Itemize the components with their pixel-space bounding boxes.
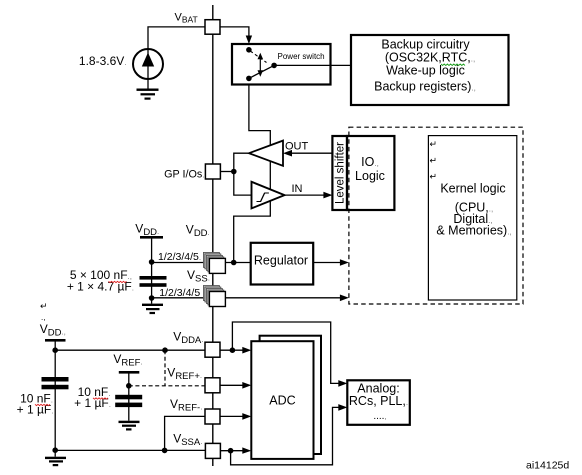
ground below VREF cap — [119, 421, 140, 431]
pin GP I/Os — [205, 164, 220, 179]
svg-text:Logic: Logic — [355, 169, 385, 183]
wire level-shifter to OUT buffer — [291, 152, 332, 154]
ground below 4.7uF cap — [142, 298, 163, 314]
ground below left cap — [45, 450, 66, 466]
arrowhead IN — [323, 192, 332, 199]
kernel logic box — [428, 136, 516, 300]
wire VDDA pin to ADC — [220, 349, 244, 351]
ground below source — [137, 89, 159, 100]
arrowhead VREF+-ADC — [242, 382, 251, 389]
dashed kernel container box — [349, 127, 523, 304]
svg-text:Power switch: Power switch — [278, 52, 325, 61]
node VDD-regulator junction — [231, 260, 237, 266]
pin VREF+ — [205, 378, 220, 393]
pin stack VDD 1/2/3/4/5 — [203, 252, 225, 273]
arrowhead VSSA-analog — [338, 404, 347, 411]
ADC back box — [260, 336, 321, 454]
arrowhead OUT — [283, 150, 292, 157]
level shifter box — [332, 136, 347, 210]
pin stack VSS 1/2/3/4/5 — [203, 286, 225, 307]
node VSS cap bottom — [149, 295, 155, 301]
red squiggle nF left — [35, 404, 50, 405]
wire VREF- to VSSA line — [165, 416, 205, 450]
pin VBAT — [205, 20, 220, 35]
wire VDD node to VDD pins — [152, 262, 210, 264]
wire regulator to kernel — [313, 262, 341, 264]
node VDD cap top — [149, 259, 155, 265]
wire source to VBAT — [148, 27, 205, 50]
arrowhead into power switch — [246, 36, 252, 45]
svg-text:1.8-3.6V.: 1.8-3.6V. — [79, 54, 127, 68]
wire VBAT to power switch — [220, 27, 249, 37]
svg-text:RCs, PLL,.: RCs, PLL,. — [349, 394, 408, 408]
wire switch to backup box — [274, 64, 351, 66]
wire switch bottom to buffer supply rail — [234, 85, 271, 263]
green squiggle spellcheck mark — [441, 64, 465, 66]
node GPIO junction — [231, 169, 237, 175]
pin VREF- — [205, 409, 220, 424]
node VDDA-left — [52, 347, 58, 353]
wire VSSA pin to ADC — [220, 450, 244, 452]
ADC front box U-ADC — [251, 341, 313, 459]
capacitor 10nF/1uF VREF — [115, 395, 142, 400]
wire VREF- pin to ADC — [220, 415, 244, 417]
svg-text:IN: IN — [292, 183, 303, 195]
red squiggle nF VREF — [93, 398, 108, 399]
main pin rail — [212, 5, 214, 466]
wire VSSA line — [55, 449, 205, 451]
switch toggle arrow — [259, 57, 261, 73]
svg-text:Regulator: Regulator — [254, 254, 308, 268]
switch contact right — [271, 63, 277, 69]
pin VDDA — [205, 342, 220, 357]
svg-text:....,: ...., — [373, 411, 386, 422]
VDD rail bar lower-left — [45, 339, 66, 342]
wire VDD-lower bar down through cap to VSSA line — [54, 342, 56, 451]
wire VDDA to analog box — [232, 322, 341, 383]
switch contact top — [246, 47, 252, 53]
VREF rail bar — [119, 371, 140, 374]
analog box — [347, 380, 410, 425]
wire GPIO pin to node — [220, 171, 233, 173]
regulator box — [251, 243, 314, 285]
wire VDD pins to regulator — [225, 262, 250, 264]
svg-text:.,: ., — [41, 313, 45, 322]
wire IN buffer to level shifter — [285, 194, 327, 196]
arrowhead VDDA-ADC — [242, 347, 251, 354]
wire VDDA line — [55, 349, 205, 351]
svg-text:↵: ↵ — [430, 139, 438, 149]
pin VSSA — [205, 443, 220, 458]
svg-text:GP I/Os.: GP I/Os. — [164, 168, 204, 180]
wire VSS node to VSS pins — [152, 297, 210, 299]
arrowhead VDDA-analog — [338, 380, 347, 387]
svg-text:& Memories).,: & Memories)., — [436, 224, 511, 238]
node VREF- to VSSA — [162, 448, 168, 454]
switch arm dashed — [250, 51, 266, 63]
wire VDD bar to cap — [151, 239, 153, 299]
svg-text:Level shifter: Level shifter — [334, 142, 346, 204]
svg-text:Kernel logic: Kernel logic — [440, 182, 505, 196]
svg-text:OUT: OUT — [285, 141, 309, 153]
svg-text:ADC: ADC — [269, 394, 295, 408]
svg-text:↵: ↵ — [430, 156, 438, 166]
wire VREF+ pin to ADC — [220, 384, 244, 386]
VDD rail bar upper — [140, 236, 163, 239]
node VDDA-ADC junction — [230, 347, 236, 353]
capacitor 10nF/1uF left — [42, 377, 69, 382]
IO logic box — [347, 136, 394, 210]
schmitt hysteresis symbol — [257, 193, 269, 202]
capacitor 100nF/4.7uF — [140, 276, 167, 280]
arrowhead VREF--ADC — [242, 413, 251, 420]
wire VSSA to analog box — [231, 407, 342, 464]
svg-text:1/2/3/4/5.: 1/2/3/4/5. — [158, 251, 201, 263]
current source 1.8-3.6V — [133, 49, 163, 89]
svg-text:Wake-up logic: Wake-up logic — [386, 64, 465, 78]
wire OUT apex to GPIO node — [234, 153, 252, 195]
op-amp OUT buffer — [249, 141, 283, 166]
wire VSS pins to kernel — [226, 297, 342, 299]
arrowhead VSSA-ADC — [242, 447, 251, 453]
svg-text:↵: ↵ — [40, 301, 48, 311]
svg-text:↵: ↵ — [430, 172, 438, 182]
backup circuitry box U-backup — [351, 35, 509, 105]
node VDDA dashed branch — [162, 347, 168, 353]
svg-text:ai14125d: ai14125d — [526, 460, 569, 472]
dashed wire VREF to VREF+ pin — [129, 385, 205, 387]
schmitt buffer IN — [252, 182, 285, 209]
dashed wire VDDA line to VREF+ line — [164, 350, 166, 386]
wire VREF bar to cap — [128, 374, 130, 421]
node VSSA-left — [52, 447, 58, 453]
svg-text:1/2/3/4/5: 1/2/3/4/5 — [159, 287, 200, 299]
svg-text:(OSC32K,RTC,.,: (OSC32K,RTC,., — [385, 51, 475, 65]
svg-text:Backup circuitry: Backup circuitry — [381, 38, 470, 52]
node VSSA-ADC junction — [228, 448, 234, 454]
svg-text:Backup registers).,: Backup registers)., — [374, 80, 476, 94]
red squiggle nF — [109, 281, 127, 282]
power switch box — [232, 44, 331, 85]
switch arm solid — [249, 65, 274, 78]
arrowhead VSS-kernel — [340, 295, 349, 302]
switch contact bottom — [246, 76, 252, 82]
node VREF — [126, 383, 132, 389]
arrowhead regulator-kernel — [340, 259, 349, 266]
